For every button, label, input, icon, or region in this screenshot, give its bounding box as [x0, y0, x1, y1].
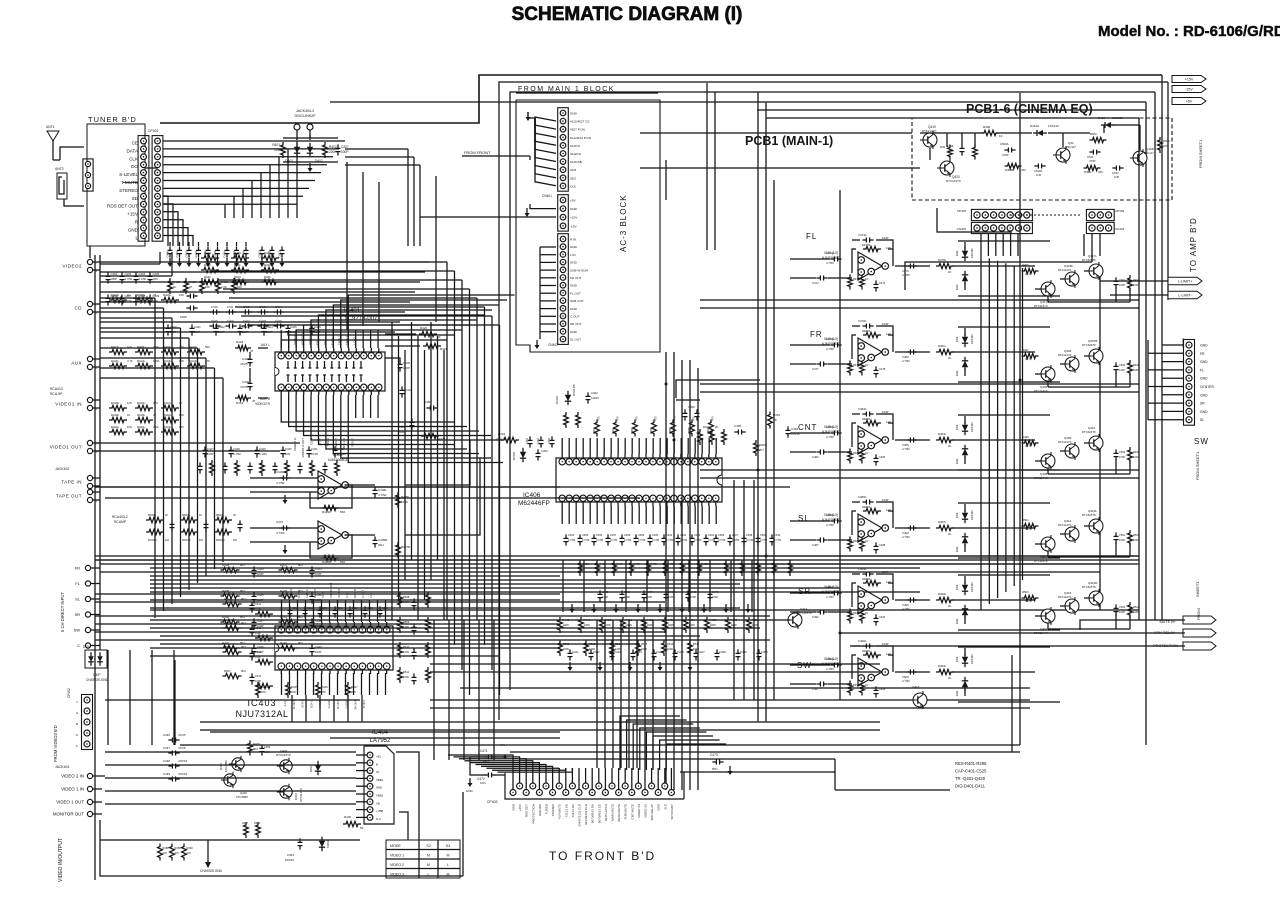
- transistor Q411: [1082, 426, 1103, 452]
- svg-text:S12/4112 P.ON: S12/4112 P.ON: [570, 136, 591, 140]
- capacitor SL in1: [826, 513, 842, 527]
- label FR: [810, 330, 823, 339]
- svg-text:R521R: R521R: [182, 538, 191, 542]
- svg-text:C458: C458: [688, 405, 695, 409]
- jack VIDEO1 OUT: [50, 440, 100, 454]
- wire: [1161, 75, 1163, 620]
- resistor R419: [235, 395, 256, 405]
- svg-text:47/25: 47/25: [311, 452, 318, 456]
- svg-text:C492: C492: [812, 615, 819, 619]
- CN403 stub wires: [1148, 345, 1183, 420]
- wire: [1154, 92, 1156, 620]
- resistor R448: [768, 412, 781, 429]
- svg-text:ANT2: ANT2: [55, 167, 64, 171]
- capacitor SR oc: [902, 598, 918, 612]
- label FROM MAIN 1 BLOCK: [516, 86, 658, 93]
- op-amp IC402a: [318, 471, 349, 499]
- svg-text:GND: GND: [1200, 344, 1208, 348]
- transistor Q417L: [1082, 254, 1103, 280]
- svg-text:R433: R433: [204, 275, 211, 279]
- svg-text:C521: C521: [382, 607, 389, 610]
- svg-text:100P: 100P: [403, 366, 410, 370]
- resistor SW fb: [862, 649, 891, 658]
- svg-text:C510: C510: [258, 251, 262, 258]
- wire: [430, 663, 880, 665]
- svg-text:C518: C518: [337, 607, 344, 610]
- svg-text:CP405: CP405: [957, 209, 967, 213]
- connector CP405: [957, 209, 1033, 234]
- svg-text:R523R: R523R: [216, 538, 225, 542]
- resistor FR rg2: [860, 361, 869, 376]
- bus: [674, 83, 715, 790]
- svg-text:R417L: R417L: [163, 401, 172, 405]
- cap row below IC406 ext: [714, 533, 793, 576]
- resistor rows left: [109, 293, 210, 435]
- svg-text:C446: C446: [163, 733, 171, 737]
- svg-text:VIDEO 2 IN: VIDEO 2 IN: [61, 774, 84, 779]
- label IC CNT: [822, 425, 841, 434]
- jack AUX: [71, 356, 100, 370]
- svg-text:Q41BL: Q41BL: [1064, 264, 1074, 268]
- svg-text:C448: C448: [719, 650, 726, 654]
- svg-text:R431: R431: [234, 263, 241, 267]
- svg-text:C436L: C436L: [276, 470, 285, 474]
- svg-text:Q408: Q408: [1040, 472, 1048, 476]
- resistor cluster: [1128, 602, 1140, 618]
- svg-text:JACK402: JACK402: [55, 467, 69, 471]
- wire: [665, 160, 667, 200]
- svg-text:Q405: Q405: [1040, 385, 1048, 389]
- wire CNT fb: [852, 414, 893, 447]
- IC401 top pin labels: [293, 327, 357, 345]
- svg-text:0.1/50: 0.1/50: [259, 452, 267, 456]
- svg-text:1K: 1K: [948, 676, 952, 680]
- capacitor SR cg: [874, 614, 886, 625]
- svg-text:C512: C512: [1112, 171, 1119, 175]
- svg-text:-15V: -15V: [570, 224, 577, 228]
- svg-text:4.7/50: 4.7/50: [902, 607, 910, 611]
- capacitor SL in2: [812, 538, 828, 548]
- resistor R478: [248, 741, 271, 756]
- ground: [535, 340, 540, 349]
- IC401 pin stubs: [281, 330, 378, 418]
- IC403 pin stubs: [282, 600, 386, 695]
- svg-text:D410A: D410A: [1030, 124, 1039, 128]
- svg-text:LA7952: LA7952: [370, 738, 391, 744]
- svg-text:4.7/50: 4.7/50: [826, 667, 834, 671]
- capacitor C430: [240, 379, 253, 390]
- bus upper ring IC401: [205, 262, 500, 325]
- svg-text:4.7/50: 4.7/50: [276, 481, 285, 485]
- svg-text:C475: C475: [902, 269, 909, 273]
- svg-text:RDS DET OUT: RDS DET OUT: [107, 204, 138, 209]
- svg-text:+B1: +B1: [376, 755, 381, 759]
- svg-text:8K2: 8K2: [241, 621, 246, 625]
- svg-text:SD2: SD2: [570, 176, 576, 180]
- svg-text:470P: 470P: [1002, 153, 1009, 157]
- wire: [962, 133, 975, 147]
- svg-text:C430: C430: [242, 380, 250, 384]
- svg-text:DISCLINK2P: DISCLINK2P: [295, 114, 317, 118]
- svg-text:100P: 100P: [315, 572, 322, 576]
- svg-text:R422L: R422L: [137, 425, 146, 429]
- svg-text:SP COUNT: SP COUNT: [670, 804, 674, 820]
- svg-text:N-C: N-C: [376, 817, 381, 821]
- wire: [102, 775, 105, 777]
- junction: [839, 632, 842, 635]
- svg-text:S1: S1: [376, 770, 380, 774]
- svg-text:10K: 10K: [179, 413, 184, 417]
- video mode table: [386, 840, 460, 878]
- wire: [1084, 234, 1100, 262]
- resistor R420: [419, 326, 441, 339]
- svg-text:Q409: Q409: [1064, 436, 1072, 440]
- svg-text:R416L: R416L: [137, 401, 146, 405]
- svg-text:C510A: C510A: [1034, 169, 1043, 173]
- svg-text:R484L: R484L: [938, 432, 947, 436]
- svg-text:FROM VIDEO3 B'D: FROM VIDEO3 B'D: [53, 725, 58, 762]
- svg-text:TO FRONT B'D: TO FRONT B'D: [549, 849, 656, 863]
- svg-text:C511: C511: [1087, 155, 1094, 159]
- svg-text:2K: 2K: [715, 425, 719, 429]
- svg-text:RCA413: RCA413: [50, 387, 63, 391]
- diode SL d2: [955, 533, 968, 552]
- wire: [700, 299, 1139, 301]
- resistor base: [1022, 518, 1039, 531]
- capacitor C451: [285, 838, 303, 862]
- wire video2 jack: [100, 252, 172, 276]
- transistor Q415: [1058, 591, 1079, 615]
- svg-text:47/25: 47/25: [240, 385, 248, 389]
- svg-text:CNT: CNT: [798, 423, 817, 432]
- label PCB1 (MAIN-1): [745, 134, 833, 148]
- svg-text:C432: C432: [403, 361, 411, 365]
- resistor SL or: [936, 520, 954, 536]
- svg-text:R440: R440: [344, 815, 352, 819]
- svg-text:C474A: C474A: [858, 233, 867, 237]
- svg-text:9273/9163 CLK: 9273/9163 CLK: [584, 804, 588, 825]
- svg-text:Q419: Q419: [928, 125, 936, 129]
- wire: [105, 497, 640, 499]
- wire: [520, 758, 835, 760]
- svg-text:TAPE OUT: TAPE OUT: [56, 494, 82, 499]
- svg-text:4.7/50: 4.7/50: [826, 595, 834, 599]
- op-amp FR: [858, 338, 889, 366]
- svg-text:DTA114YK: DTA114YK: [1058, 523, 1072, 527]
- capacitor SW oc: [902, 670, 918, 684]
- svg-text:CP403: CP403: [487, 800, 497, 804]
- bus IC403 down: [292, 695, 362, 722]
- svg-text:47K: 47K: [261, 690, 266, 694]
- wire SL to bus: [952, 527, 1035, 529]
- capacitor cluster: [1114, 449, 1126, 460]
- svg-text:AUX: AUX: [71, 361, 82, 366]
- bus bottom-left verticals: [434, 620, 494, 760]
- capacitor SW in2: [812, 682, 828, 692]
- svg-text:VIDEO 3: VIDEO 3: [390, 873, 404, 877]
- resistor SW rg2: [860, 681, 869, 696]
- svg-text:C421: C421: [194, 325, 201, 329]
- svg-text:R419L: R419L: [137, 413, 146, 417]
- svg-text:CLK: CLK: [570, 184, 577, 188]
- svg-text:GND: GND: [570, 245, 578, 249]
- transistor Q409: [1058, 436, 1079, 460]
- svg-text:C515: C515: [292, 607, 299, 610]
- svg-text:DTC114YK: DTC114YK: [299, 788, 303, 802]
- wire: [430, 707, 1030, 709]
- svg-text:GND: GND: [570, 330, 578, 334]
- resistor SR or: [936, 592, 954, 608]
- ground: [728, 766, 733, 775]
- svg-text:4112CS: 4112CS: [570, 152, 581, 156]
- cluster left of IC403: [223, 597, 274, 689]
- CP403 pin labels: [512, 803, 674, 826]
- svg-text:R438: R438: [222, 589, 230, 593]
- wire: [1167, 82, 1169, 300]
- svg-text:ZD402: ZD402: [555, 396, 559, 405]
- svg-text:0.1/50: 0.1/50: [139, 277, 147, 281]
- label PROTECTION: [1153, 644, 1178, 648]
- IC401 internal switches: [287, 361, 363, 382]
- IC IC406: [556, 454, 722, 506]
- svg-text:PCB1-6 (CINEMA EQ): PCB1-6 (CINEMA EQ): [966, 102, 1093, 116]
- svg-text:DTC323TK: DTC323TK: [1082, 585, 1096, 589]
- capacitor FR cg: [874, 366, 886, 377]
- wire: [640, 167, 920, 169]
- bus: [1139, 300, 1148, 620]
- svg-text:2SK117: 2SK117: [1144, 151, 1154, 155]
- capacitor C471: [480, 749, 496, 763]
- wire: [1035, 598, 1089, 616]
- wire SL out: [895, 527, 930, 529]
- svg-text:470/16: 470/16: [178, 772, 188, 776]
- resistor R422: [421, 433, 446, 441]
- transistor Q451: [1034, 535, 1055, 563]
- svg-text:KTC3880: KTC3880: [236, 795, 248, 799]
- diode CNT d2: [955, 445, 968, 464]
- svg-text:DIO-D401-D411: DIO-D401-D411: [955, 784, 986, 789]
- wire SR to bus: [952, 599, 1035, 601]
- svg-text:C428: C428: [242, 357, 250, 361]
- svg-text:1N5: 1N5: [1036, 173, 1042, 177]
- svg-text:N-C: N-C: [663, 803, 667, 809]
- resistor base: [1022, 435, 1039, 448]
- svg-text:100K: 100K: [647, 623, 654, 627]
- svg-text:R450: R450: [759, 443, 766, 447]
- capacitor FL fb: [858, 233, 889, 243]
- svg-text:SR: SR: [1200, 402, 1205, 406]
- capacitor C432: [398, 360, 411, 371]
- capacitor C452: [586, 391, 600, 404]
- svg-text:R418L: R418L: [111, 413, 120, 417]
- diode D404 pair: [83, 645, 107, 668]
- resistor row y648: [558, 640, 700, 656]
- resistor FL or: [936, 258, 954, 274]
- svg-text:C434: C434: [405, 388, 413, 392]
- capacitor SL fb: [858, 495, 889, 505]
- wire: [420, 216, 556, 218]
- capacitor FR in2: [812, 362, 828, 372]
- capacitor C434: [400, 386, 413, 397]
- svg-text:FROM MAIN 1 BLOCK: FROM MAIN 1 BLOCK: [518, 86, 615, 93]
- wire: [160, 75, 1162, 123]
- IC403 top pin labels: [281, 583, 373, 598]
- svg-text:C401: C401: [175, 251, 179, 258]
- svg-text:9246 LATCH: 9246 LATCH: [604, 804, 608, 821]
- svg-text:TUNER B'D: TUNER B'D: [88, 115, 137, 124]
- wire FR dv: [964, 328, 966, 376]
- jack CD: [75, 301, 101, 315]
- svg-text:100K: 100K: [584, 623, 591, 627]
- resistor R498: [973, 145, 978, 160]
- svg-text:C438L: C438L: [378, 488, 387, 492]
- svg-text:47: 47: [189, 285, 193, 289]
- label FROM SHEET1 mid: [1195, 451, 1200, 480]
- svg-text:DTA114YK: DTA114YK: [1058, 595, 1072, 599]
- jack MONITOR OUT: [53, 811, 102, 816]
- vertical stubs mid-bottom: [563, 560, 752, 612]
- svg-text:10N: 10N: [483, 759, 489, 763]
- svg-text:C449: C449: [163, 772, 171, 776]
- svg-text:SR OUT: SR OUT: [570, 322, 582, 326]
- svg-text:C517: C517: [322, 607, 329, 610]
- CP402 pin labels: [76, 700, 79, 748]
- resistor FL rg2: [860, 275, 869, 290]
- wire CNT dv: [964, 416, 966, 464]
- bus left fan IC401: [100, 298, 223, 618]
- transistor Q422: [1130, 147, 1154, 167]
- svg-text:4.7/50: 4.7/50: [902, 535, 910, 539]
- svg-text:JACK404-2: JACK404-2: [296, 109, 314, 113]
- svg-text:Q413L: Q413L: [1088, 509, 1097, 513]
- wire FL out: [895, 265, 930, 267]
- resistor CNT fb: [862, 417, 891, 426]
- wire: [60, 147, 84, 160]
- svg-text:4K7: 4K7: [1025, 444, 1030, 448]
- wire: [330, 101, 1146, 103]
- wire: [920, 132, 1090, 134]
- svg-text:M: M: [427, 863, 430, 867]
- transistor Q414: [785, 607, 812, 629]
- wire SW to bus: [952, 671, 1035, 673]
- wire: [100, 486, 790, 488]
- svg-text:C487: C487: [812, 543, 819, 547]
- wire: [700, 307, 1139, 309]
- svg-text:C437: C437: [276, 520, 284, 524]
- svg-text:C485: C485: [902, 443, 909, 447]
- wire: [405, 440, 470, 485]
- wire: [205, 840, 211, 868]
- svg-text:8K2: 8K2: [241, 669, 246, 673]
- svg-text:330: 330: [179, 425, 184, 429]
- capacitor C509B: [1000, 142, 1016, 157]
- label SW: [797, 661, 812, 670]
- svg-text:S-LEVEL: S-LEVEL: [119, 172, 138, 177]
- label JACK402: [55, 467, 69, 471]
- wire: [250, 478, 375, 492]
- svg-text:1K: 1K: [127, 293, 131, 297]
- label chassis gnd: [86, 673, 109, 682]
- svg-text:+15V: +15V: [127, 212, 139, 217]
- svg-text:4K7: 4K7: [1025, 527, 1030, 531]
- resistor R424L: [321, 505, 345, 514]
- svg-text:L-LIMIT-: L-LIMIT-: [1178, 294, 1192, 298]
- label FL: [806, 232, 817, 241]
- junction: [757, 469, 760, 472]
- wire SL dv: [964, 504, 966, 552]
- svg-text:SL: SL: [75, 597, 81, 602]
- svg-text:REAR MUTE: REAR MUTE: [617, 804, 621, 822]
- wire: [460, 687, 1030, 689]
- svg-text:C472: C472: [812, 281, 819, 285]
- wire SW out: [895, 671, 930, 673]
- ground: [283, 495, 288, 504]
- capacitor row below IC406: [564, 533, 716, 546]
- wire SW fb: [852, 646, 893, 679]
- op-amp SR: [858, 586, 889, 614]
- diode FR d1: [955, 333, 974, 347]
- resistor row below IC406: [578, 560, 709, 576]
- svg-text:4.7/50: 4.7/50: [378, 493, 387, 497]
- svg-text:DTC323TK: DTC323TK: [1082, 430, 1096, 434]
- resistor FL fb: [862, 243, 891, 252]
- wire bundle CP401 low: [163, 196, 193, 246]
- svg-text:SUB OUT: SUB OUT: [570, 299, 584, 303]
- svg-text:IC40 (1/2): IC40 (1/2): [824, 425, 838, 429]
- svg-text:FL: FL: [1200, 368, 1204, 372]
- svg-text:GND: GND: [1200, 360, 1208, 364]
- resistor CNT rg2: [860, 449, 869, 464]
- svg-text:CAP-C401-C525: CAP-C401-C525: [955, 769, 987, 774]
- diode D401: [285, 143, 300, 163]
- bus: [665, 352, 667, 790]
- svg-text:R420L: R420L: [163, 413, 172, 417]
- svg-text:IC40 (1/2): IC40 (1/2): [824, 513, 838, 517]
- svg-text:SW: SW: [1194, 437, 1209, 446]
- diode CNT d1: [955, 421, 974, 435]
- wire SR in: [790, 593, 852, 612]
- transistor Q405: [1034, 365, 1055, 393]
- capacitor C436: [276, 470, 291, 485]
- label 6 CH DIRECT INPUT: [60, 592, 65, 632]
- svg-text:C402: C402: [185, 251, 189, 258]
- transistor Q407B: [1082, 339, 1103, 365]
- svg-text:R481L: R481L: [938, 344, 947, 348]
- svg-text:FROM: FROM: [1196, 608, 1201, 620]
- bus 6ch horizontals: [95, 594, 770, 640]
- svg-text:560: 560: [205, 345, 210, 349]
- wire: [1011, 655, 1013, 752]
- svg-text:10K: 10K: [205, 285, 210, 289]
- svg-text:FROM FRONT: FROM FRONT: [464, 150, 491, 155]
- transistor Q408: [1034, 452, 1055, 480]
- svg-text:VIDEO2: VIDEO2: [63, 264, 83, 269]
- svg-text:R49: R49: [940, 145, 946, 149]
- svg-text:1K: 1K: [165, 513, 169, 517]
- svg-text:4K7: 4K7: [1025, 599, 1030, 603]
- resistor R432: [242, 821, 261, 838]
- svg-text:CD2: CD2: [570, 168, 576, 172]
- svg-text:Q414: Q414: [800, 607, 808, 611]
- wire FR in: [790, 345, 852, 364]
- label FROM FRONT: [462, 150, 530, 160]
- svg-text:47/25: 47/25: [178, 746, 186, 750]
- wire: [150, 647, 560, 649]
- wire: [150, 655, 500, 657]
- resistor base: [1022, 590, 1039, 603]
- resistor FR or: [936, 344, 954, 360]
- svg-text:1K: 1K: [948, 356, 952, 360]
